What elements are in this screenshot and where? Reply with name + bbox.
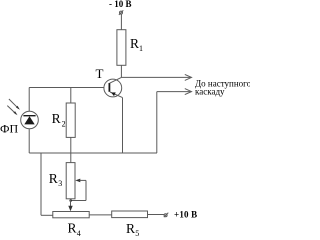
wire top of photodiode xyxy=(28,88,30,112)
svg-text:R: R xyxy=(126,221,135,236)
svg-text:- 10 В: - 10 В xyxy=(109,0,132,9)
svg-text:R: R xyxy=(52,111,61,126)
wire to output arrow 2 xyxy=(157,89,192,153)
wire left branch rail to R4 xyxy=(41,153,53,215)
label R3 xyxy=(49,171,63,188)
svg-text:R: R xyxy=(49,171,58,186)
resistor R4 potentiometer xyxy=(53,212,89,218)
wire R2 to R3 xyxy=(70,137,72,162)
svg-text:ФП: ФП xyxy=(0,121,18,135)
svg-text:R: R xyxy=(68,221,77,236)
resistor R3 potentiometer xyxy=(66,163,75,199)
svg-text:2: 2 xyxy=(62,119,66,128)
wire R1 to collector node xyxy=(120,65,122,77)
photodiode ФП xyxy=(21,111,39,129)
resistor R5 xyxy=(112,211,148,218)
light arrow 2 xyxy=(7,106,17,116)
wire R5 to +10V terminal xyxy=(148,214,165,216)
label R4 xyxy=(68,221,81,238)
svg-text:+10 В: +10 В xyxy=(174,209,197,219)
terminal -10V xyxy=(119,10,123,15)
label R1 xyxy=(130,36,143,53)
svg-text:1: 1 xyxy=(139,44,143,53)
light arrow 1 xyxy=(9,99,20,110)
wire terminal to R1 xyxy=(120,14,122,30)
wire base rail to R2 xyxy=(70,88,72,104)
wire R4 to R5 xyxy=(89,214,112,216)
resistor R2 xyxy=(66,103,75,137)
wire bottom of photodiode xyxy=(28,129,30,153)
wire emitter down xyxy=(122,98,124,153)
wire emitter rail bottom xyxy=(29,152,157,154)
svg-text:R: R xyxy=(130,36,139,51)
svg-text:каскаду: каскаду xyxy=(195,87,225,97)
label R5 xyxy=(126,221,139,238)
terminal +10V xyxy=(164,213,169,217)
transistor T xyxy=(104,77,123,97)
label R2 xyxy=(52,111,66,128)
label output: До наступного каскаду xyxy=(195,78,252,96)
svg-text:3: 3 xyxy=(58,179,62,188)
resistor R1 xyxy=(117,30,126,66)
wire collector node to output arrow 1 xyxy=(121,74,191,80)
wiper arrow of R3 xyxy=(69,179,86,202)
wire base rail xyxy=(29,87,104,89)
svg-text:4: 4 xyxy=(77,229,81,236)
svg-text:5: 5 xyxy=(135,229,139,236)
wire R3 bottom to R4 wiper xyxy=(68,199,72,211)
svg-text:T: T xyxy=(96,66,104,81)
